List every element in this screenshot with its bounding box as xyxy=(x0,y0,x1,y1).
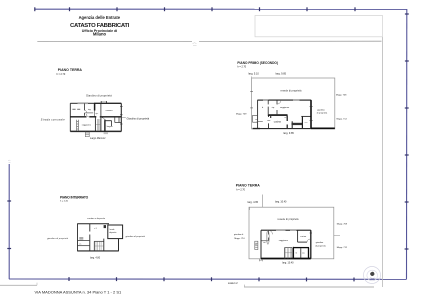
svg-text:h = 2.70: h = 2.70 xyxy=(236,188,245,191)
plan1 bathroom xyxy=(105,120,112,132)
plan1 outer walls xyxy=(70,103,121,132)
plan1 window dashes left room xyxy=(72,108,80,110)
svg-text:Giardino di proprietà: Giardino di proprietà xyxy=(127,117,150,120)
svg-text:giardino di proprietà: giardino di proprietà xyxy=(126,235,146,238)
svg-text:PIANO PRIMO (SECONDO): PIANO PRIMO (SECONDO) xyxy=(237,61,278,65)
svg-text:PIANO TERRA: PIANO TERRA xyxy=(236,184,261,188)
plan1 main horizontal wall xyxy=(70,116,121,118)
svg-text:cucina: cucina xyxy=(274,121,282,124)
plan3 corner tick xyxy=(249,207,251,210)
plan2 building left wall xyxy=(257,100,259,129)
plan2 interior vertical 1 xyxy=(267,100,269,128)
plan4 corridor wall xyxy=(89,224,91,251)
svg-text:Mapp. 708: Mapp. 708 xyxy=(337,224,348,226)
svg-text:deposito: deposito xyxy=(109,231,116,234)
faint gray sheet border: top line xyxy=(37,40,192,42)
plan1 exterior steps below xyxy=(85,132,89,138)
svg-text:PIANO INTERRATO: PIANO INTERRATO xyxy=(60,195,89,199)
svg-text:PIANO TERRA: PIANO TERRA xyxy=(58,68,83,72)
svg-text:rip.: rip. xyxy=(272,106,275,109)
plan1 interior wall C xyxy=(100,103,102,116)
plan3 window tick right wall xyxy=(310,232,312,234)
svg-text:larg. 4.80: larg. 4.80 xyxy=(90,257,101,260)
plan4 top wall xyxy=(77,223,109,225)
svg-text:wc: wc xyxy=(302,253,305,255)
svg-text:Strada comunale: Strada comunale xyxy=(41,118,65,121)
svg-text:b: b xyxy=(262,107,264,109)
svg-text:larg. 10.40: larg. 10.40 xyxy=(275,201,287,204)
plan4 door jamb pier xyxy=(104,225,106,228)
svg-text:Largo Marconi: Largo Marconi xyxy=(90,137,106,140)
svg-text:Mapp. 708: Mapp. 708 xyxy=(336,95,347,97)
plan1 interior wall A xyxy=(83,103,85,116)
svg-text:di proprietà: di proprietà xyxy=(315,244,326,247)
plan3 top-right room xyxy=(298,230,307,242)
plan3 steps below building xyxy=(260,259,263,261)
gray bottom-left line fragment xyxy=(0,284,37,286)
svg-text:larg. 9.85: larg. 9.85 xyxy=(283,132,294,135)
plan2 building bottom wall xyxy=(253,128,260,130)
plan2 left edge ticks xyxy=(250,92,253,108)
plan1 window marks right wall xyxy=(120,107,123,124)
plan2 window ticks right wall xyxy=(310,106,313,120)
plan2 building top wall xyxy=(257,99,263,101)
plan1 door arcs xyxy=(84,110,105,120)
svg-text:cucina: cucina xyxy=(300,236,307,238)
plan4 corridor dividers xyxy=(78,241,90,246)
gray bottom-right line fragment xyxy=(244,286,374,288)
plan3 leader line right xyxy=(334,235,340,237)
plan1 right leader dash xyxy=(122,116,126,118)
svg-text:giardino: giardino xyxy=(317,108,325,111)
plan1 entrance ticks xyxy=(101,101,106,103)
svg-text:Mapp. 712: Mapp. 712 xyxy=(337,119,348,121)
faint office-use box top right xyxy=(255,16,383,37)
plan2 attached room left xyxy=(253,115,258,122)
plan2 vertical below thick wall xyxy=(286,115,288,129)
plan2 stub wall below thick wall xyxy=(270,115,272,118)
svg-text:h = 2.70: h = 2.70 xyxy=(57,73,66,76)
svg-text:rip.: rip. xyxy=(96,112,99,115)
svg-text:h = 2.40: h = 2.40 xyxy=(60,201,69,203)
svg-text:c.1: c.1 xyxy=(94,228,97,230)
plan3 bathroom block xyxy=(293,247,309,259)
plan2 corner tick xyxy=(250,76,252,78)
plan4 stairs xyxy=(94,239,104,251)
svg-text:Mapp. 710: Mapp. 710 xyxy=(234,238,245,240)
plan1 ladder symbol xyxy=(77,120,79,131)
faint gray sheet border: right line xyxy=(382,37,384,287)
plan3 left attached steps xyxy=(255,241,258,249)
plan3 building top wall xyxy=(261,229,276,231)
plan2 stair block xyxy=(291,121,293,128)
plan3 tick near oval xyxy=(263,241,265,243)
plan3 lot rectangle xyxy=(249,207,334,259)
svg-text:giardino: giardino xyxy=(316,241,324,244)
svg-text:cantina e deposito: cantina e deposito xyxy=(87,217,106,220)
svg-text:larg. 5.10: larg. 5.10 xyxy=(248,73,259,76)
plan1 closets right xyxy=(115,117,122,123)
plan3 building right wall xyxy=(310,230,312,258)
plan2 building right wall thick xyxy=(310,100,312,128)
plan1 hallway wall stub xyxy=(85,112,93,114)
plan3 stairs xyxy=(285,248,293,259)
svg-text:giardino di: giardino di xyxy=(234,234,244,236)
svg-text:larg. 4.95: larg. 4.95 xyxy=(248,201,259,204)
svg-text:soggiorno: soggiorno xyxy=(82,124,92,127)
stamp circle bottom right xyxy=(364,267,381,284)
plan4 ladder ticks xyxy=(79,237,83,240)
svg-text:soggiorno: soggiorno xyxy=(280,106,290,109)
plan4 left wall xyxy=(77,224,79,251)
plan4 right block xyxy=(108,225,123,239)
svg-text:h = 2.70: h = 2.70 xyxy=(237,66,246,69)
svg-text:resede di proprietà: resede di proprietà xyxy=(278,218,300,221)
svg-text:Mapp. 709: Mapp. 709 xyxy=(236,114,247,116)
svg-text:locale: locale xyxy=(110,229,115,231)
svg-text:di proprietà: di proprietà xyxy=(317,112,328,115)
svg-text:Agenzia delle Entrate: Agenzia delle Entrate xyxy=(79,15,121,20)
plan3 door arcs xyxy=(269,230,310,242)
svg-text:VIA MADONNA ASSUNTA n. 34 Pian: VIA MADONNA ASSUNTA n. 34 Piano T 1 - 2 … xyxy=(35,289,122,294)
plan1 interior wall B thick xyxy=(94,103,96,110)
plan1 stairwell xyxy=(95,117,101,132)
plan3 building bottom wall xyxy=(261,258,311,260)
plan2 interior vertical 2 xyxy=(276,100,278,114)
plan2 lot rectangle xyxy=(252,78,335,129)
plan2 bottom-right thick wall xyxy=(311,127,335,129)
plan4 bottom wall xyxy=(77,250,119,252)
plan2 thick horizontal wall xyxy=(268,114,288,116)
plan4 right wall lower xyxy=(118,239,120,251)
svg-text:giardino di proprietà: giardino di proprietà xyxy=(47,237,69,240)
plan2 door arcs xyxy=(277,100,287,118)
plan3 building left wall xyxy=(260,230,262,258)
svg-text:larg. 10.40: larg. 10.40 xyxy=(282,261,294,264)
plan3 extension line xyxy=(261,195,263,208)
plan2 vertical wall 4 xyxy=(301,116,303,128)
svg-text:soggiorno: soggiorno xyxy=(279,239,289,242)
svg-text:Giardino di proprietà: Giardino di proprietà xyxy=(86,95,112,98)
svg-text:Milano: Milano xyxy=(93,32,107,37)
svg-text:bagno: bagno xyxy=(107,126,114,128)
svg-text:b: b xyxy=(296,253,298,255)
plan1 step marks below right xyxy=(104,132,108,134)
svg-text:c.t.: c.t. xyxy=(79,242,82,245)
svg-text:scala 1:2: scala 1:2 xyxy=(228,282,238,285)
svg-text:larg. 9.85: larg. 9.85 xyxy=(276,73,287,76)
svg-text:camera: camera xyxy=(106,109,114,112)
svg-text:ing.: ing. xyxy=(88,109,92,111)
svg-text:Mapp. 712: Mapp. 712 xyxy=(337,247,348,249)
plan3 flue oval xyxy=(267,230,270,244)
plan3 closet wall left xyxy=(261,230,268,241)
svg-text:resede di proprietà: resede di proprietà xyxy=(281,89,303,92)
